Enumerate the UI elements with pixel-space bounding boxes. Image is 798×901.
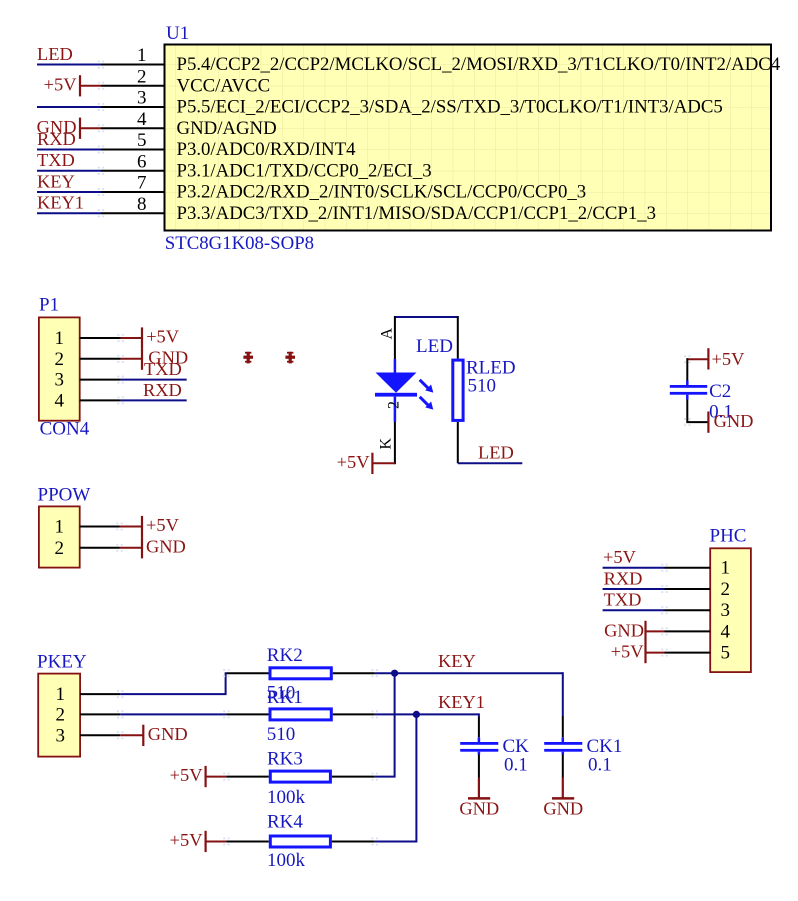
svg-text:100k: 100k	[267, 787, 306, 808]
C2 top lead	[686, 358, 688, 380]
power port GND at C2	[708, 411, 753, 433]
wire LED top	[395, 316, 458, 318]
PHC pin 1 stub	[665, 567, 711, 569]
svg-text:3: 3	[137, 88, 147, 109]
wire LED anode to RLED	[457, 316, 459, 359]
svg-text:2: 2	[721, 579, 731, 600]
svg-text:P1: P1	[39, 295, 59, 316]
connector PKEY body	[38, 674, 80, 757]
svg-text:A: A	[379, 328, 396, 340]
wire net LED to U1 pin1	[37, 64, 101, 66]
IC U1 body STC8G1K08-SOP8	[165, 45, 772, 231]
svg-text:1: 1	[137, 45, 147, 66]
svg-text:3: 3	[56, 725, 66, 746]
wire PKEY pin2 to RK1	[120, 713, 226, 715]
LED anode lead wire	[394, 316, 396, 359]
svg-text:GND: GND	[604, 620, 644, 640]
svg-text:RK1: RK1	[267, 687, 303, 708]
svg-text:CON4: CON4	[40, 419, 90, 440]
power port +5V at LED cathode	[337, 452, 395, 474]
junction KEY1 node	[413, 711, 420, 718]
svg-text:U1: U1	[166, 23, 189, 44]
LED diode symbol	[375, 359, 417, 422]
power port GND at PHC pin4	[604, 620, 664, 642]
svg-text:KEY1: KEY1	[37, 193, 84, 213]
svg-text:100k: 100k	[267, 850, 306, 871]
svg-text:PKEY: PKEY	[37, 652, 87, 673]
resistor RK2	[223, 668, 378, 679]
svg-text:P5.5/ECI_2/ECI/CCP2_3/SDA_2/SS: P5.5/ECI_2/ECI/CCP2_3/SDA_2/SS/TXD_3/T0C…	[177, 97, 723, 118]
U1 pin 4 stub	[101, 127, 165, 129]
LED cathode lead	[394, 422, 396, 464]
svg-text:PPOW: PPOW	[38, 484, 91, 505]
C2 bottom lead	[687, 400, 708, 423]
connector P1 body	[39, 317, 80, 420]
svg-text:7: 7	[137, 173, 147, 194]
svg-text:+5V: +5V	[603, 547, 637, 567]
svg-text:+5V: +5V	[170, 765, 204, 785]
resistor RK4	[223, 836, 378, 847]
wire net RXD to PHC pin2	[603, 588, 665, 590]
CK1 top lead	[562, 716, 564, 737]
svg-text:5: 5	[137, 130, 147, 151]
svg-text:P5.4/CCP2_2/CCP2/MCLKO/SCL_2/M: P5.4/CCP2_2/CCP2/MCLKO/SCL_2/MOSI/RXD_3/…	[177, 54, 781, 75]
svg-text:2: 2	[386, 401, 403, 409]
wire net KEY to U1 pin7	[37, 191, 101, 193]
wire net KEY1 down to CK	[478, 713, 480, 717]
svg-text:RK2: RK2	[267, 645, 303, 666]
PPOW pin 1 stub	[80, 526, 120, 528]
svg-text:C2: C2	[709, 381, 731, 402]
P1 pin 4 stub	[80, 399, 121, 401]
wire RK3 to KEY net	[375, 673, 395, 776]
LED emission arrow 2	[420, 397, 434, 410]
svg-text:+5V: +5V	[611, 642, 645, 662]
svg-text:LED: LED	[416, 336, 453, 357]
RLED bottom lead	[457, 422, 459, 463]
power port +5V at PPOW pin1	[120, 515, 180, 537]
svg-text:1: 1	[55, 328, 65, 349]
PKEY pin 1 stub	[80, 693, 120, 695]
svg-text:2: 2	[55, 349, 65, 370]
svg-text:KEY1: KEY1	[438, 692, 485, 712]
svg-text:GND: GND	[459, 798, 499, 818]
svg-text:LED: LED	[478, 443, 514, 463]
svg-text:P3.2/ADC2/RXD_2/INT0/SCLK/SCL/: P3.2/ADC2/RXD_2/INT0/SCLK/SCL/CCP0/CCP0_…	[177, 182, 587, 203]
U1 pin 6 stub	[101, 170, 165, 172]
PKEY pin 2 stub	[80, 713, 120, 715]
PHC pin 5 stub	[665, 652, 711, 654]
U1 pin 1 stub	[101, 64, 165, 66]
svg-text:+5V: +5V	[170, 830, 204, 850]
resistor RK1	[223, 709, 378, 720]
wire RK4 to KEY1 net	[375, 714, 417, 841]
svg-text:+5V: +5V	[337, 452, 371, 472]
svg-text:GND: GND	[148, 724, 188, 744]
svg-text:RK3: RK3	[267, 748, 303, 769]
capacitor CK1 symbol	[544, 737, 582, 754]
svg-text:0.1: 0.1	[588, 755, 612, 776]
power port GND at P1 pin2	[121, 348, 189, 370]
power port GND at PKEY pin3	[120, 724, 187, 746]
svg-text:PHC: PHC	[710, 526, 747, 547]
power port GND at PPOW pin2	[120, 536, 186, 558]
capacitor C2 symbol	[670, 381, 707, 400]
U1 pin 5 stub	[101, 149, 165, 151]
CK1 bottom lead	[562, 755, 564, 778]
power port +5V at C2	[687, 348, 745, 369]
svg-text:GND: GND	[543, 798, 583, 818]
svg-text:510: 510	[468, 376, 497, 397]
svg-text:K: K	[378, 438, 395, 450]
wire net TXD to U1 pin6	[37, 170, 101, 172]
wire net RXD to U1 pin5	[37, 149, 101, 151]
svg-text:+5V: +5V	[712, 349, 746, 369]
wire net TXD from P1 pin3	[121, 379, 187, 381]
svg-text:3: 3	[721, 600, 731, 621]
wire net KEY down to CK1	[562, 672, 564, 716]
svg-text:RK4: RK4	[267, 812, 303, 833]
resistor RK3	[223, 771, 378, 782]
power port GND below CK1	[543, 778, 583, 819]
wire net TXD to PHC pin3	[603, 609, 665, 611]
U1 pin 3 stub	[101, 106, 165, 108]
U1 pin 8 stub	[101, 212, 165, 214]
P1 pin 3 stub	[80, 379, 121, 381]
svg-text:P3.0/ADC0/RXD/INT4: P3.0/ADC0/RXD/INT4	[177, 139, 357, 160]
power port GND at U1 pin4	[37, 117, 101, 139]
svg-text:4: 4	[137, 109, 147, 130]
junction KEY node	[391, 670, 398, 677]
svg-text:2: 2	[56, 704, 66, 725]
power port +5V at RK4	[170, 830, 227, 852]
P1 pin 1 stub	[80, 337, 121, 339]
svg-text:LED: LED	[37, 44, 73, 64]
svg-text:1: 1	[721, 558, 731, 579]
svg-text:+5V: +5V	[44, 75, 78, 95]
resistor RLED	[453, 360, 463, 420]
svg-text:GND/AGND: GND/AGND	[177, 118, 277, 139]
PKEY pin 3 stub	[80, 734, 120, 736]
wire net RXD from P1 pin4	[121, 399, 187, 401]
svg-text:510: 510	[267, 724, 296, 745]
wire net KEY1 horizontal	[375, 713, 479, 715]
svg-text:GND: GND	[714, 411, 754, 431]
P1 pin 2 stub	[80, 358, 121, 360]
power port +5V at RK3	[170, 765, 227, 787]
svg-text:4: 4	[721, 621, 731, 642]
wire net +5V to PHC pin1	[603, 567, 665, 569]
PHC pin 4 stub	[665, 630, 711, 632]
svg-text:4: 4	[55, 390, 65, 411]
PPOW pin 2 stub	[80, 547, 120, 549]
CK bottom lead	[478, 755, 480, 778]
power port +5V at U1 pin2	[44, 75, 101, 97]
power port +5V at P1 pin1	[121, 327, 180, 349]
capacitor CK symbol	[460, 737, 498, 754]
svg-text:8: 8	[137, 194, 147, 215]
svg-text:2: 2	[55, 538, 65, 559]
svg-text:VCC/AVCC: VCC/AVCC	[177, 75, 271, 96]
svg-text:+5V: +5V	[146, 515, 180, 535]
svg-text:TXD: TXD	[604, 590, 642, 610]
svg-text:1: 1	[56, 684, 66, 705]
svg-text:STC8G1K08-SOP8: STC8G1K08-SOP8	[165, 233, 314, 254]
svg-text:6: 6	[137, 151, 147, 172]
connector PPOW body	[39, 506, 80, 567]
CK top lead	[478, 717, 480, 737]
power port GND below CK	[459, 778, 499, 819]
svg-text:RXD: RXD	[143, 380, 182, 400]
PHC pin 3 stub	[665, 609, 711, 611]
U1 pin 2 stub	[101, 85, 165, 87]
svg-text:RXD: RXD	[37, 129, 76, 149]
wire net KEY1 to U1 pin8	[37, 212, 101, 214]
svg-text:2: 2	[137, 66, 147, 87]
svg-text:P3.3/ADC3/TXD_2/INT1/MISO/SDA/: P3.3/ADC3/TXD_2/INT1/MISO/SDA/CCP1/CCP1_…	[177, 203, 657, 224]
svg-text:TXD: TXD	[144, 359, 182, 379]
connector PHC body	[710, 548, 751, 672]
LED emission arrow 1	[420, 380, 434, 393]
svg-text:0.1: 0.1	[504, 755, 528, 776]
no-ERC cross marker 1	[243, 352, 253, 364]
U1 pin 7 stub	[101, 191, 165, 193]
svg-text:TXD: TXD	[37, 150, 75, 170]
svg-text:+5V: +5V	[146, 327, 180, 347]
svg-text:GND: GND	[146, 536, 186, 556]
wire at U1 pin3	[37, 106, 101, 108]
svg-text:3: 3	[55, 370, 65, 391]
wire net LED bottom	[458, 462, 523, 464]
svg-text:KEY: KEY	[37, 172, 75, 192]
svg-text:RXD: RXD	[604, 569, 643, 589]
power port +5V at PHC pin5	[611, 642, 665, 664]
PHC pin 2 stub	[665, 588, 711, 590]
wire PKEY pin1 to RK2	[120, 673, 226, 694]
svg-text:5: 5	[721, 643, 731, 664]
svg-text:KEY: KEY	[438, 651, 476, 671]
svg-text:P3.1/ADC1/TXD/CCP0_2/ECI_3: P3.1/ADC1/TXD/CCP0_2/ECI_3	[177, 160, 432, 181]
wire net KEY horizontal	[375, 672, 563, 674]
svg-text:1: 1	[55, 517, 65, 538]
no-ERC cross marker 2	[285, 352, 295, 364]
